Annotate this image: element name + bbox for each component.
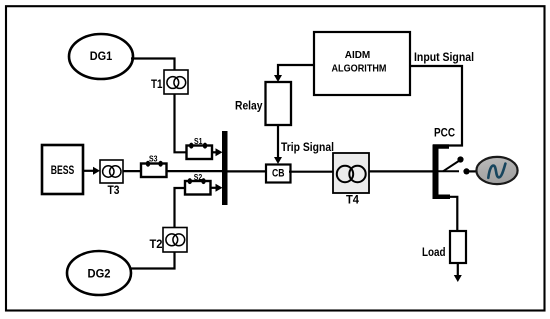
wire relay to CB (trip, arrow) — [274, 125, 282, 164]
transformer T2 — [163, 228, 187, 253]
arrow BESS to T3 — [83, 167, 100, 175]
svg-text:T1: T1 — [151, 79, 163, 91]
wire T4 to PCC — [369, 170, 433, 172]
battery BESS — [42, 145, 83, 194]
arrow S1 to bus — [212, 148, 223, 156]
svg-text:ALGORITHM: ALGORITHM — [332, 64, 387, 75]
wire T3 to switch S3 — [123, 170, 141, 172]
svg-text:S3: S3 — [149, 154, 158, 163]
switch S3 — [141, 154, 167, 177]
svg-text:Input Signal: Input Signal — [414, 50, 474, 64]
wire PCC to load — [450, 197, 457, 231]
generator DG1 — [69, 34, 133, 79]
transformer T3 — [100, 160, 123, 183]
svg-text:CB: CB — [272, 168, 285, 180]
bus bar — [222, 131, 228, 205]
PCC switch to grid — [438, 156, 477, 174]
wire DG2 to T2 — [130, 252, 175, 269]
transformer T4 — [333, 153, 369, 193]
svg-text:T4: T4 — [346, 195, 360, 207]
PCC breaker bar — [433, 145, 451, 200]
svg-text:PCC: PCC — [434, 126, 455, 140]
svg-text:T3: T3 — [108, 185, 120, 197]
transformer T1 — [164, 70, 188, 94]
wire AIDM to relay (arrow) — [274, 65, 314, 82]
wire AIDM to PCC (input signal) — [410, 66, 462, 146]
svg-text:Load: Load — [422, 245, 446, 259]
svg-text:AIDM: AIDM — [345, 50, 371, 61]
svg-text:DG1: DG1 — [90, 49, 113, 63]
arrow S2 to bus — [211, 184, 223, 192]
wire T1 to switch S1 — [175, 94, 187, 152]
circuit breaker CB — [266, 165, 291, 183]
arrow load to ground — [454, 263, 462, 282]
relay box — [266, 82, 292, 125]
grid source G1 — [476, 157, 517, 184]
wire DG1 to T1 — [131, 59, 175, 71]
svg-text:S1: S1 — [194, 137, 203, 146]
svg-text:S2: S2 — [194, 173, 203, 182]
wire T2 to switch S2 — [175, 188, 186, 228]
svg-text:T2: T2 — [150, 239, 163, 251]
generator DG2 — [67, 251, 131, 295]
svg-text:Relay: Relay — [235, 99, 263, 113]
switch S1 — [187, 137, 213, 159]
svg-text:Trip Signal: Trip Signal — [281, 140, 334, 154]
wire CB to T4 — [289, 171, 333, 173]
AIDM algorithm block U1 — [314, 32, 410, 95]
load resistor — [450, 231, 466, 263]
svg-text:DG2: DG2 — [88, 267, 111, 281]
switch S2 — [185, 173, 211, 195]
wire S3 to bus — [167, 170, 223, 172]
wire bus to CB — [228, 170, 267, 172]
svg-text:BESS: BESS — [51, 165, 75, 177]
